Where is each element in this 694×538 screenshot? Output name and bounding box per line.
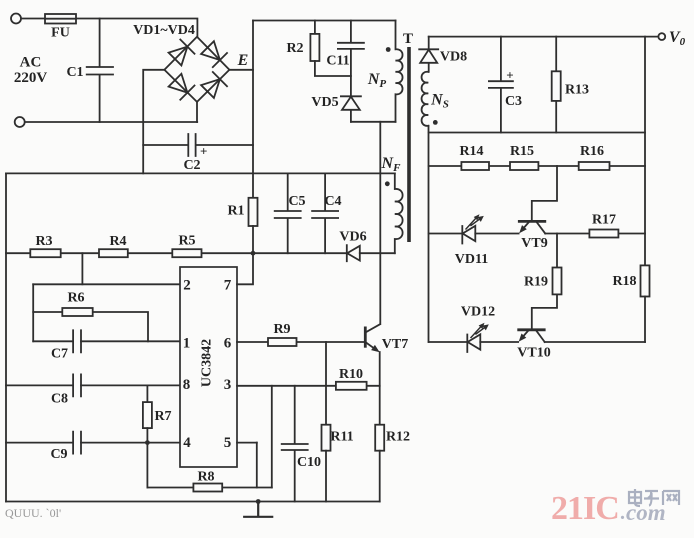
svg-text:VT10: VT10 xyxy=(517,346,550,361)
svg-text:R12: R12 xyxy=(386,430,410,445)
svg-text:8: 8 xyxy=(183,377,191,393)
diode VD1 top-left xyxy=(169,40,195,66)
svg-text:VT9: VT9 xyxy=(521,236,547,251)
svg-text:R7: R7 xyxy=(154,409,171,424)
wire R8 row xyxy=(147,487,271,489)
resistor R13 xyxy=(555,37,557,72)
wire secondary top rail xyxy=(429,36,659,38)
wire R3/R4 junction drop to pin2 row xyxy=(81,253,83,284)
wire VD6 row xyxy=(253,252,395,254)
svg-text:.: . xyxy=(620,502,625,524)
resistor R6 xyxy=(62,308,92,316)
resistor R11 xyxy=(322,425,331,451)
capacitor C8 xyxy=(73,374,81,396)
svg-text:VD8: VD8 xyxy=(440,50,467,65)
resistor R14 xyxy=(461,162,489,170)
wire VD12 row left xyxy=(429,341,518,343)
capacitor C9 xyxy=(73,432,81,454)
fuse FU xyxy=(45,14,76,24)
wire pin5 row xyxy=(237,442,257,444)
resistor R16 xyxy=(579,162,610,170)
svg-text:+: + xyxy=(200,144,207,159)
NF polarity dot xyxy=(385,181,390,186)
wire R19 feed xyxy=(556,234,558,268)
svg-text:R3: R3 xyxy=(35,234,52,249)
capacitor C4 xyxy=(312,173,338,253)
wire NP bottom to NF/VT7 collector xyxy=(379,122,381,324)
wire VT9 collector row R17 xyxy=(545,233,645,235)
svg-text:R18: R18 xyxy=(612,274,636,289)
svg-text:VD5: VD5 xyxy=(311,95,338,110)
wire C8 row pin8 xyxy=(6,384,180,386)
svg-text:C2: C2 xyxy=(183,158,200,173)
wire fuse feed xyxy=(21,19,197,37)
wire VT10 base feed xyxy=(532,294,557,328)
svg-text:VD12: VD12 xyxy=(461,305,495,320)
wire R6 row xyxy=(33,312,148,341)
wire C7 row pin1 xyxy=(33,340,180,342)
svg-text:C5: C5 xyxy=(288,194,305,209)
wire VT10 collector row xyxy=(545,341,645,343)
transformer secondary NS winding xyxy=(422,72,429,126)
svg-text:UC3842: UC3842 xyxy=(200,339,215,387)
resistor R9 xyxy=(268,338,297,346)
wire VT7 emitter column xyxy=(379,352,381,425)
wire R3 row xyxy=(6,252,253,254)
NS polarity dot xyxy=(433,120,438,125)
NP polarity dot xyxy=(386,47,391,52)
transformer core T xyxy=(407,47,411,242)
svg-text:R6: R6 xyxy=(67,291,84,306)
wire pin2 row xyxy=(33,283,180,285)
wire left vertical xyxy=(5,173,7,501)
svg-text:R14: R14 xyxy=(459,144,483,159)
resistor R5 xyxy=(172,249,201,257)
svg-text:VD1~VD4: VD1~VD4 xyxy=(133,23,195,38)
wire pin7 to junction xyxy=(237,253,253,284)
svg-text:VD6: VD6 xyxy=(339,230,366,245)
diode VD5 xyxy=(341,96,361,122)
svg-text:C9: C9 xyxy=(50,447,67,462)
svg-text:VT7: VT7 xyxy=(382,337,408,352)
capacitor C2 electrolytic xyxy=(143,134,253,156)
op-amp U1 UC3842 body xyxy=(180,267,237,467)
logo CJK dianziwang xyxy=(629,489,679,506)
resistor R12 xyxy=(375,425,384,451)
svg-text:220V: 220V xyxy=(14,70,48,86)
wire pin6 row R9 xyxy=(237,341,365,343)
wire VD11 row left xyxy=(429,233,519,235)
LED VD11 xyxy=(462,226,475,244)
svg-text:+: + xyxy=(506,68,513,83)
wire R7 junction down to R8 row xyxy=(146,443,148,488)
diode VD4 bottom-right xyxy=(201,72,227,98)
svg-text:C8: C8 xyxy=(51,392,68,407)
transistor VT10 xyxy=(519,328,545,331)
svg-text:QUUU. `0l': QUUU. `0l' xyxy=(5,506,61,520)
wire pin3 row R10 xyxy=(237,385,380,387)
wire NP bottom xyxy=(351,121,396,123)
svg-text:1: 1 xyxy=(183,336,191,352)
svg-text:C1: C1 xyxy=(66,65,83,80)
LED VD12 xyxy=(467,334,480,352)
wire bottom bus xyxy=(6,501,380,503)
svg-text:R15: R15 xyxy=(510,144,534,159)
svg-text:R16: R16 xyxy=(580,144,604,159)
diode VD6 xyxy=(347,245,360,261)
transistor VT7 xyxy=(364,328,367,346)
diode VD8 xyxy=(419,37,438,72)
svg-text:R17: R17 xyxy=(592,213,616,228)
resistor R19 xyxy=(553,268,562,295)
AC input terminal bottom xyxy=(15,117,25,127)
capacitor C1 xyxy=(87,19,113,123)
capacitor C7 xyxy=(73,330,81,352)
svg-text:FU: FU xyxy=(51,26,70,41)
ground xyxy=(244,502,272,517)
svg-text:2: 2 xyxy=(183,278,191,294)
svg-text:C3: C3 xyxy=(505,94,522,109)
svg-text:C11: C11 xyxy=(326,54,349,69)
resistor R18 xyxy=(641,265,650,296)
node junction R7/C9 row xyxy=(145,440,150,445)
svg-text:21IC: 21IC xyxy=(551,490,619,527)
terminal V0 xyxy=(658,33,665,40)
svg-text:7: 7 xyxy=(224,278,232,294)
svg-text:R9: R9 xyxy=(273,322,290,337)
svg-text:R1: R1 xyxy=(227,204,244,219)
bridge rectifier VD1~VD4 frame xyxy=(164,37,229,102)
resistor R1 xyxy=(249,198,258,226)
resistor R10 xyxy=(336,382,367,390)
wire VT9 base feed xyxy=(532,166,557,220)
svg-text:R5: R5 xyxy=(178,234,195,249)
diode VD2 top-right xyxy=(201,41,227,67)
wire top rail primary xyxy=(253,20,396,22)
svg-text:5: 5 xyxy=(224,435,232,451)
transformer primary NP winding xyxy=(396,21,403,122)
capacitor C11 xyxy=(338,21,364,97)
wire AC bottom xyxy=(25,121,197,123)
AC input terminal top xyxy=(11,14,21,24)
wire pin3 drop xyxy=(271,386,273,488)
resistor R7 xyxy=(146,385,148,402)
transformer feedback NF winding xyxy=(395,173,403,253)
svg-text:R4: R4 xyxy=(109,234,126,249)
wire pin5 drop xyxy=(256,443,258,488)
svg-text:R2: R2 xyxy=(286,41,303,56)
wire node E to main vertical xyxy=(229,69,253,71)
svg-text:R13: R13 xyxy=(565,83,589,98)
resistor R2 xyxy=(314,21,316,34)
capacitor C5 xyxy=(275,173,301,253)
resistor R3 xyxy=(30,249,60,257)
svg-text:4: 4 xyxy=(183,435,191,451)
svg-text:E: E xyxy=(237,52,249,69)
wire R6 box left edge xyxy=(32,284,34,341)
node junction ground xyxy=(256,499,261,504)
svg-text:C10: C10 xyxy=(297,455,321,470)
svg-text:T: T xyxy=(403,31,413,47)
wire main vertical x253 xyxy=(252,21,254,198)
wire R14 row xyxy=(429,165,645,167)
svg-text:3: 3 xyxy=(224,377,232,393)
wire second rail xyxy=(429,132,645,134)
capacitor C3 electrolytic xyxy=(489,37,513,133)
node junction R1/R5/pin7/VD6 xyxy=(251,251,256,256)
wire bridge left vertex to bus xyxy=(143,70,164,174)
svg-text:C4: C4 xyxy=(324,194,341,209)
wire right vertical xyxy=(644,37,646,266)
svg-text:VD11: VD11 xyxy=(455,252,488,267)
svg-text:R8: R8 xyxy=(197,470,214,485)
wire main bus xyxy=(6,172,395,174)
svg-text:R19: R19 xyxy=(524,275,548,290)
transistor VT9 xyxy=(519,220,545,223)
svg-text:AC: AC xyxy=(20,55,42,71)
wire C9 row pin4 xyxy=(6,442,180,444)
resistor R8 xyxy=(193,484,222,492)
resistor R4 xyxy=(99,249,128,257)
diode VD3 bottom-left xyxy=(169,74,195,100)
resistor R15 xyxy=(510,162,538,170)
wire pin6 junction down to R11 xyxy=(325,342,327,425)
svg-text:C7: C7 xyxy=(51,347,68,362)
wire bridge bottom vertex drop xyxy=(196,102,198,122)
capacitor C10 xyxy=(282,386,308,502)
svg-text:R10: R10 xyxy=(339,367,363,382)
svg-text:R11: R11 xyxy=(330,430,353,445)
svg-text:6: 6 xyxy=(224,336,232,352)
wire secondary left vertical xyxy=(428,126,430,342)
resistor R17 xyxy=(589,230,618,238)
